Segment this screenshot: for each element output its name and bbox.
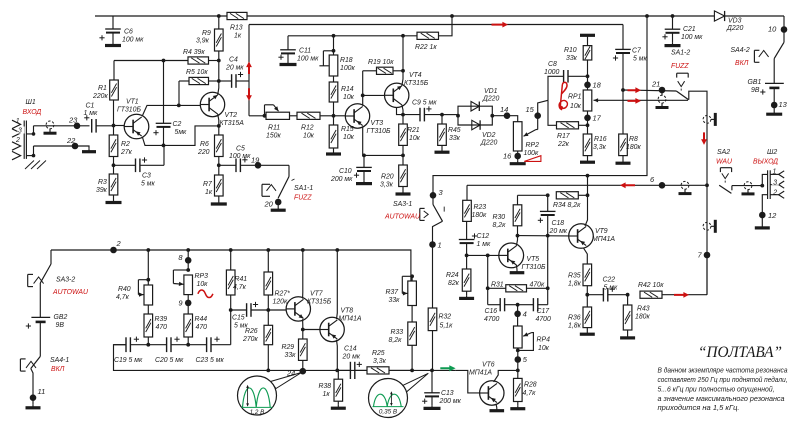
ground VT6 emitter: [490, 404, 505, 411]
svg-text:R12: R12: [301, 125, 314, 132]
capacitor C19: [114, 337, 149, 353]
resistor R3: [106, 165, 122, 202]
resistor R19: [363, 67, 403, 74]
svg-text:R14: R14: [341, 86, 354, 93]
node R34 left: [546, 193, 550, 197]
red wave RP3: [198, 290, 213, 298]
label C7: [632, 48, 647, 63]
svg-text:C10: C10: [339, 168, 352, 175]
svg-text:3: 3: [18, 128, 22, 135]
svg-text:R40: R40: [118, 286, 131, 293]
svg-text:FUZZ: FUZZ: [294, 195, 312, 202]
node VT5 base loop: [486, 254, 490, 258]
svg-text:1000: 1000: [544, 69, 559, 76]
transistor VT2: [200, 92, 224, 116]
label C21: [681, 26, 703, 41]
svg-text:R25: R25: [372, 350, 385, 357]
svg-text:20: 20: [264, 200, 274, 209]
node rail1 x647: [645, 14, 649, 18]
svg-text:10к: 10к: [343, 134, 355, 141]
capacitor C11: [278, 36, 296, 65]
svg-text:C8: C8: [548, 61, 557, 68]
svg-text:150к: 150к: [266, 133, 281, 140]
shield wau line: [703, 220, 715, 233]
svg-text:4,7к: 4,7к: [116, 294, 130, 301]
svg-text:C3: C3: [142, 173, 151, 180]
svg-text:VT5: VT5: [527, 256, 540, 263]
label C4: [225, 57, 244, 72]
node R18 wiper tie: [332, 49, 336, 53]
node VT1 base: [112, 124, 116, 128]
wire C1 to base node: [96, 125, 113, 127]
svg-text:RP3: RP3: [195, 273, 209, 280]
wire C8 left drop: [548, 76, 564, 100]
resistor R4: [188, 57, 219, 64]
node rail R40: [146, 248, 150, 252]
label node 3: [439, 188, 444, 197]
label Sh1 pins: [15, 118, 25, 144]
label VD2: [480, 132, 498, 147]
svg-text:а значение максимального резон: а значение максимального резонанса: [658, 396, 785, 403]
label R27: [273, 291, 291, 306]
label VT5: [522, 256, 546, 271]
capacitor C18: [538, 195, 556, 235]
node R21 bottom: [401, 154, 405, 158]
node R35-C22: [585, 293, 589, 297]
node R5 base tap: [177, 104, 181, 108]
node R26 bottom: [266, 369, 270, 373]
resistor R6: [215, 126, 224, 165]
svg-text:R34 8,2к: R34 8,2к: [553, 202, 581, 209]
capacitor C10: [354, 155, 372, 183]
svg-text:КТ315А: КТ315А: [220, 120, 245, 127]
node R17-R16: [586, 123, 590, 127]
node C22-R43: [626, 293, 630, 297]
svg-text:180к: 180к: [626, 144, 641, 151]
wire R4-C4 link: [218, 61, 220, 82]
node rail VT8: [335, 248, 339, 252]
paragraph note: [658, 366, 788, 412]
svg-text:C4: C4: [229, 57, 238, 64]
svg-text:C21: C21: [683, 26, 696, 33]
svg-text:0,35 В: 0,35 В: [379, 408, 397, 415]
resistor R42: [640, 291, 707, 298]
wire to node 10: [783, 16, 785, 42]
svg-text:VT1: VT1: [126, 99, 139, 106]
label node 11: [38, 387, 46, 396]
svg-text:180к: 180к: [635, 314, 650, 321]
svg-text:27к: 27к: [120, 149, 133, 156]
svg-text:5 мк: 5 мк: [604, 285, 618, 292]
capacitor C1: [84, 115, 96, 132]
svg-text:Ш2: Ш2: [767, 149, 777, 156]
node 18: [584, 76, 591, 90]
svg-text:SA1-1: SA1-1: [294, 185, 313, 192]
capacitor C20: [148, 337, 188, 353]
svg-text:R10: R10: [564, 47, 577, 54]
svg-text:R18: R18: [340, 57, 353, 64]
node C7-R8 tap: [621, 88, 625, 92]
wire rail3: [288, 35, 417, 37]
resistor R21: [399, 115, 408, 156]
label C13: [439, 390, 462, 405]
label node 10: [768, 25, 777, 34]
svg-text:20 мк: 20 мк: [549, 228, 568, 235]
label R4: [183, 49, 205, 56]
svg-text:GB1: GB1: [748, 79, 762, 86]
label node 6: [650, 175, 655, 184]
svg-text:Ш1: Ш1: [26, 99, 36, 106]
svg-text:C19 5 мк: C19 5 мк: [114, 357, 143, 364]
label SA1-2: [671, 50, 690, 71]
node R6-C5-R7: [217, 163, 221, 167]
svg-text:100к: 100к: [524, 150, 539, 157]
svg-text:33к: 33к: [285, 352, 297, 359]
label C20: [155, 357, 184, 364]
svg-text:R32: R32: [439, 314, 452, 321]
svg-text:C17: C17: [537, 308, 551, 315]
svg-text:3: 3: [773, 179, 777, 186]
connector Sh2 jack: [762, 170, 784, 215]
label R25: [372, 350, 387, 365]
svg-text:21: 21: [651, 80, 660, 89]
node rail R41: [229, 248, 233, 252]
svg-text:R6: R6: [200, 141, 209, 148]
svg-text:12: 12: [768, 211, 777, 220]
resistor R25: [367, 367, 412, 374]
label R2: [120, 141, 133, 156]
svg-text:39к: 39к: [96, 187, 108, 194]
svg-text:2: 2: [116, 239, 122, 248]
red arrow down wau: [701, 132, 707, 145]
diode VD1: [458, 102, 492, 116]
switch SA4-2: [754, 42, 784, 62]
label R11: [266, 125, 281, 140]
svg-text:C2: C2: [173, 121, 182, 128]
label R40: [116, 286, 131, 301]
red arrow fuzz upper: [628, 87, 642, 93]
node 16: [510, 151, 526, 164]
capacitor C8: [564, 70, 588, 83]
transistor VT8: [320, 317, 344, 341]
capacitor C12: [459, 233, 477, 255]
red arrow up: [246, 62, 252, 75]
svg-text:VD1: VD1: [484, 88, 498, 95]
svg-text:4: 4: [523, 310, 527, 319]
svg-text:5мк: 5мк: [175, 129, 188, 136]
wire VT9 collector: [585, 176, 588, 226]
node VT6 coll junction: [516, 369, 520, 373]
node R31 left: [486, 286, 490, 290]
label C18: [549, 220, 568, 235]
resistor R45: [435, 115, 450, 153]
resistor R30: [513, 195, 522, 235]
node rail3-R18: [332, 34, 336, 38]
wire R4 rail: [114, 60, 188, 62]
label R26: [242, 328, 258, 343]
node rail1-R9: [217, 14, 221, 18]
svg-text:VT9: VT9: [595, 228, 608, 235]
node rail1 C21: [671, 14, 675, 18]
ground above R10: [580, 35, 595, 45]
label R23: [472, 204, 487, 219]
capacitor C7: [613, 25, 631, 135]
battery GB2: [26, 283, 50, 356]
svg-text:R43: R43: [637, 306, 650, 313]
wire R42 to node7: [706, 255, 708, 295]
resistor R26: [264, 310, 273, 370]
svg-text:ГТ310Б: ГТ310Б: [367, 128, 391, 135]
svg-text:R29: R29: [282, 344, 295, 351]
node jack2 in: [760, 184, 764, 188]
svg-text:C18: C18: [552, 220, 565, 227]
label Sh2 pins: [772, 168, 779, 196]
node rail3-VT4: [401, 34, 405, 38]
resistor R2: [109, 126, 118, 166]
svg-text:220к: 220к: [92, 93, 108, 100]
label node 17: [593, 114, 602, 123]
svg-text:ВЫХОД: ВЫХОД: [753, 159, 778, 166]
label C5: [229, 146, 251, 161]
svg-text:3,3к: 3,3к: [373, 358, 387, 365]
label node 14: [500, 105, 508, 114]
svg-text:VD3: VD3: [728, 18, 742, 25]
svg-text:1,8к: 1,8к: [568, 281, 582, 288]
node R21 top: [401, 113, 405, 117]
svg-text:8,2к: 8,2к: [389, 337, 403, 344]
node 13: [766, 102, 782, 115]
svg-text:В данном экземпляре частота ре: В данном экземпляре частота резонанса: [658, 366, 788, 374]
svg-text:180к: 180к: [472, 212, 487, 219]
node R19-VT4: [401, 69, 405, 73]
svg-text:R11: R11: [268, 125, 280, 132]
label R8: [626, 136, 641, 151]
node 20: [271, 199, 286, 211]
label R24: [446, 272, 460, 287]
svg-text:AUTOWAU: AUTOWAU: [384, 214, 421, 221]
svg-text:FUZZ: FUZZ: [671, 63, 689, 70]
svg-text:SA4-1: SA4-1: [50, 357, 69, 364]
label node 16: [503, 152, 512, 161]
node VT7e-VT8b: [301, 328, 305, 332]
svg-text:R39: R39: [155, 316, 168, 323]
node C15-R27-R26: [266, 308, 270, 312]
node R39 bottom: [146, 343, 150, 347]
label node 19: [251, 156, 260, 165]
svg-text:VT8: VT8: [341, 308, 354, 315]
capacitor C3: [114, 147, 165, 172]
label node 2: [116, 239, 122, 248]
svg-text:100 мк: 100 мк: [122, 37, 144, 44]
svg-text:3,9к: 3,9к: [196, 38, 210, 45]
wire VT5 collector: [516, 236, 517, 246]
wire VT6 base: [455, 370, 479, 393]
svg-text:R3: R3: [98, 179, 107, 186]
svg-text:R21: R21: [407, 127, 420, 134]
wire VT4 base: [363, 94, 385, 96]
svg-text:Д220: Д220: [726, 25, 744, 32]
resistor R17: [557, 122, 588, 129]
node C8-R10: [586, 74, 590, 78]
node 24: [300, 368, 307, 375]
node 15: [534, 100, 548, 129]
label R36: [568, 315, 582, 330]
node 6: [659, 182, 666, 189]
node rail R27: [266, 248, 270, 252]
svg-text:200 мк: 200 мк: [439, 398, 462, 405]
svg-text:R7: R7: [203, 181, 213, 188]
svg-text:200 мк: 200 мк: [330, 176, 353, 183]
svg-text:R2: R2: [121, 141, 130, 148]
label R20: [380, 174, 394, 189]
svg-text:23: 23: [68, 116, 78, 125]
node 23: [74, 123, 81, 130]
node 4: [514, 305, 521, 326]
label R38: [319, 383, 332, 398]
node 1: [429, 241, 436, 248]
svg-text:SA2: SA2: [717, 149, 730, 156]
label C9: [412, 100, 437, 107]
label C17: [536, 308, 551, 323]
transistor VT1: [114, 114, 149, 139]
node R11 wiper tie: [263, 114, 267, 118]
label node 24: [286, 369, 295, 378]
label SA4-1: [50, 357, 69, 373]
resistor R5: [179, 77, 219, 105]
label R1: [92, 85, 108, 100]
label SA1-1: [294, 185, 313, 202]
label R16: [593, 136, 607, 151]
label VT3: [367, 120, 391, 135]
wire VT4 collector down: [402, 105, 403, 115]
node R41-C15: [229, 308, 233, 312]
label R43: [635, 306, 650, 321]
wire loop right: [547, 236, 549, 305]
label R7: [203, 181, 213, 196]
svg-text:1к: 1к: [323, 391, 331, 398]
capacitor C23: [188, 337, 231, 353]
resistor R43: [620, 295, 635, 338]
svg-text:270к: 270к: [242, 336, 258, 343]
label R18: [340, 57, 355, 72]
wire SA2 out: [732, 185, 762, 187]
resistor R22: [417, 32, 439, 39]
svg-text:ГТ310Б: ГТ310Б: [117, 107, 141, 114]
capacitor C16: [488, 298, 518, 311]
svg-text:C12: C12: [477, 233, 490, 240]
red arrow line B: [620, 182, 635, 188]
shield input: [44, 121, 57, 133]
svg-text:2: 2: [772, 189, 777, 196]
label C14: [342, 346, 361, 361]
svg-text:C9 5 мк: C9 5 мк: [412, 100, 437, 107]
label R17: [557, 133, 571, 148]
wire VT2 collector down: [218, 114, 219, 126]
label SA2: [716, 149, 733, 166]
potentiometer RP1: [583, 90, 600, 111]
label R21: [407, 127, 421, 142]
diode VD3: [714, 11, 724, 21]
capacitor C15: [231, 302, 269, 317]
svg-text:ВКЛ: ВКЛ: [51, 366, 65, 373]
node 4 stub: [516, 303, 520, 307]
red wedge RP2: [524, 156, 541, 162]
node 22: [72, 143, 79, 150]
capacitor C14: [337, 362, 367, 379]
svg-text:1 мк: 1 мк: [84, 110, 98, 117]
label R45: [448, 127, 461, 142]
resistor R33: [408, 306, 417, 371]
svg-text:18: 18: [593, 81, 602, 90]
node 14: [504, 112, 511, 119]
node VT3 base: [332, 114, 336, 118]
label node 8: [178, 253, 183, 262]
capacitor C6: [99, 16, 121, 46]
node R31 right: [546, 286, 550, 290]
svg-text:22: 22: [66, 136, 76, 145]
svg-text:3,3к: 3,3к: [593, 144, 607, 151]
wire VT8 collector: [336, 250, 339, 319]
svg-text:1: 1: [438, 241, 442, 250]
label node 21: [651, 80, 660, 89]
svg-text:WAU: WAU: [716, 159, 733, 166]
transistor VT4: [385, 83, 409, 107]
svg-text:ВХОД: ВХОД: [23, 109, 42, 116]
transistor VT7: [268, 297, 310, 321]
label VT4: [404, 72, 429, 87]
shield SA2 out: [742, 182, 755, 194]
label R3: [96, 179, 108, 194]
label Sh1: [23, 99, 42, 116]
svg-text:C11: C11: [299, 48, 311, 55]
label C8: [544, 61, 559, 76]
label C12: [477, 233, 491, 248]
resistor R1: [110, 61, 119, 126]
svg-text:20 мк: 20 мк: [225, 65, 244, 72]
label C10: [330, 168, 353, 183]
wire emitter bus: [397, 108, 404, 115]
svg-text:R33: R33: [391, 329, 404, 336]
label node 22: [66, 136, 76, 145]
label VT1: [117, 99, 141, 114]
node C18 bottom: [546, 234, 550, 238]
label R12: [301, 125, 315, 140]
transistor VT3: [334, 104, 370, 128]
svg-text:1,8к: 1,8к: [568, 323, 582, 330]
wire VT5 base: [467, 254, 499, 256]
svg-text:VT2: VT2: [225, 112, 238, 119]
label GB2: [54, 314, 68, 329]
label VT9: [592, 228, 615, 243]
label VD1: [482, 88, 500, 103]
label R37: [386, 289, 401, 304]
svg-text:R35: R35: [568, 273, 581, 280]
svg-text:КТ315Б: КТ315Б: [307, 299, 332, 306]
label RP3: [195, 273, 209, 288]
svg-text:470: 470: [156, 324, 168, 331]
shield node21: [656, 90, 669, 108]
svg-text:1 мк: 1 мк: [477, 241, 491, 248]
resistor R39: [144, 305, 153, 345]
battery GB1: [760, 59, 784, 105]
resistor R31: [488, 255, 548, 304]
node 8: [185, 250, 192, 271]
svg-text:22к: 22к: [557, 141, 570, 148]
node 12: [755, 212, 770, 228]
label R32: [439, 314, 454, 330]
resistor R16: [580, 125, 595, 162]
label C16: [484, 308, 499, 323]
